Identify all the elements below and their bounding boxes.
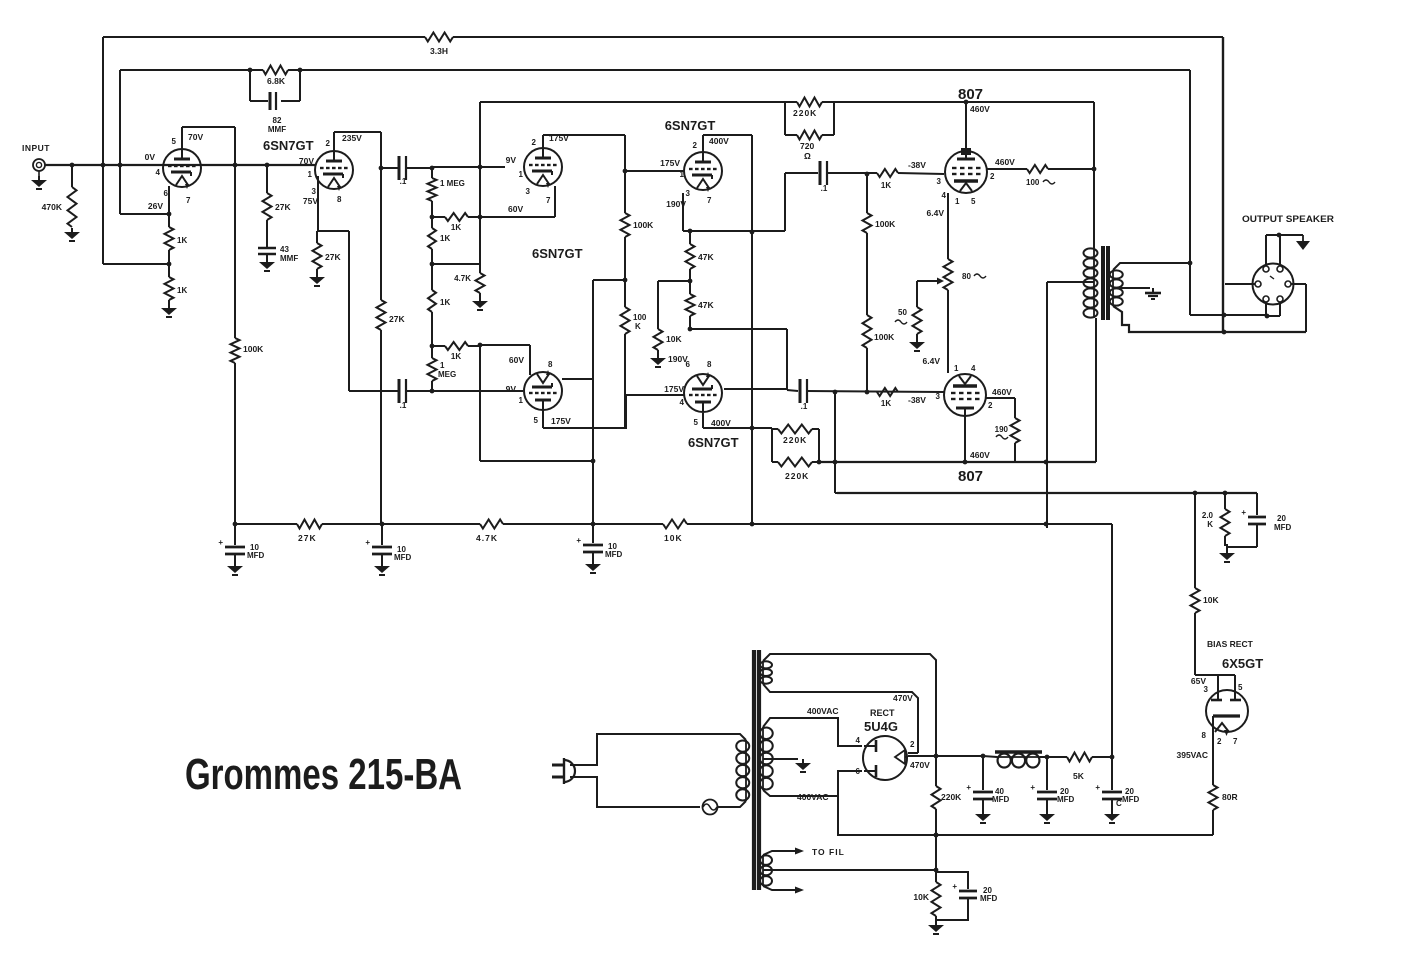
svg-text:400VAC: 400VAC xyxy=(807,706,839,716)
svg-text:6SN7GT: 6SN7GT xyxy=(688,435,739,450)
svg-text:MMF: MMF xyxy=(268,125,286,134)
svg-text:1: 1 xyxy=(954,364,959,373)
svg-text:5: 5 xyxy=(694,418,699,427)
svg-text:+: + xyxy=(966,783,971,792)
svg-text:1K: 1K xyxy=(440,298,450,307)
svg-text:TO FIL: TO FIL xyxy=(812,847,845,857)
resistor 27K divider at V2 grid xyxy=(266,165,268,193)
wire: 460V line from driver area to 807 plate xyxy=(480,101,797,103)
svg-text:3: 3 xyxy=(937,177,942,186)
svg-text:+: + xyxy=(1030,783,1035,792)
svg-text:Ω: Ω xyxy=(804,151,811,161)
capacitor .1 to upper 807 grid xyxy=(819,161,822,185)
resistor 100K V1 plate load xyxy=(231,338,240,363)
resistor 27K bus xyxy=(297,520,322,529)
wire: filament lead lower with arrow xyxy=(763,886,795,890)
svg-text:10K: 10K xyxy=(666,334,682,344)
svg-text:47K: 47K xyxy=(698,300,714,310)
svg-text:220K: 220K xyxy=(783,435,807,445)
ground below 470K xyxy=(71,228,73,232)
svg-text:807: 807 xyxy=(958,86,983,103)
wire: V5 plate riser to x=752 column xyxy=(702,135,704,153)
triode V6 6SN7GT (inverted) xyxy=(684,374,722,412)
svg-text:100: 100 xyxy=(1026,178,1040,187)
svg-text:1K: 1K xyxy=(177,236,187,245)
resistor 1K upper 807 grid stopper xyxy=(877,169,898,177)
capacitor 10 MFD decoupling 2 xyxy=(381,524,383,545)
resistor 10K bias xyxy=(1191,588,1200,613)
wire: lower 807 plate down to 460V rail xyxy=(964,416,966,462)
svg-text:2: 2 xyxy=(988,401,993,410)
AC plug xyxy=(564,760,575,782)
svg-text:4: 4 xyxy=(680,398,685,407)
svg-text:5: 5 xyxy=(971,197,976,206)
resistor 100K upper grid leak xyxy=(866,174,868,213)
resistor 4.7K bus xyxy=(480,520,503,529)
svg-text:9V: 9V xyxy=(506,384,517,394)
wire: V6 cathode down to 400V rail xyxy=(702,413,704,428)
potentiometer 80 ohm hum balance xyxy=(944,259,953,290)
resistor 4.7K to ground xyxy=(476,273,485,293)
wire: main input wire to V1 grid xyxy=(45,164,316,166)
triode V2 second 6SN7GT section xyxy=(315,151,353,189)
svg-text:470V: 470V xyxy=(893,693,913,703)
wire: socket right pin return xyxy=(1291,283,1306,285)
svg-text:MFD: MFD xyxy=(247,551,265,560)
svg-text:OUTPUT SPEAKER: OUTPUT SPEAKER xyxy=(1242,214,1335,224)
svg-text:220K: 220K xyxy=(785,471,809,481)
svg-text:8: 8 xyxy=(548,360,553,369)
resistor 10K filament CT xyxy=(932,882,941,916)
rectifier 6X5GT xyxy=(1206,690,1248,732)
svg-text:+: + xyxy=(576,536,581,545)
capacitor 20 MFD bias filter xyxy=(1256,493,1258,515)
transformer T1 core xyxy=(752,650,756,890)
svg-text:20: 20 xyxy=(1277,514,1286,523)
wire: 460V B+ line xyxy=(837,492,1257,494)
triode V1 first 6SN7GT section xyxy=(163,149,201,187)
wire: socket bottom pins xyxy=(1265,302,1267,316)
svg-text:10K: 10K xyxy=(1203,595,1219,605)
filter B+ line xyxy=(983,756,997,757)
resistor 1 MEG grid leak xyxy=(428,178,437,201)
resistor 50 ohm to ground xyxy=(913,307,922,334)
svg-text:6: 6 xyxy=(856,767,861,776)
wire: plug to fuse to primary bottom xyxy=(570,777,700,807)
wire: V3 grid line xyxy=(432,166,505,168)
svg-text:1K: 1K xyxy=(451,352,461,361)
svg-text:4: 4 xyxy=(156,168,161,177)
resistor 1K horizontal to V4 plate node xyxy=(432,345,445,347)
svg-text:7: 7 xyxy=(546,196,551,205)
resistor 1K horizontal to 60V node xyxy=(430,215,435,220)
svg-text:235V: 235V xyxy=(342,133,362,143)
transformer T1 rectifier filament winding xyxy=(762,661,764,684)
svg-text:9V: 9V xyxy=(506,155,517,165)
svg-text:3: 3 xyxy=(686,189,691,198)
svg-text:460V: 460V xyxy=(992,387,1012,397)
svg-text:1: 1 xyxy=(519,396,524,405)
capacitor .1 coupling to V3 grid xyxy=(381,167,398,169)
wire: V1 plate to 100K load, direct-coupled to V2 grid xyxy=(181,127,183,149)
svg-text:MFD: MFD xyxy=(1122,795,1140,804)
resistor 190 ohm xyxy=(1011,418,1020,443)
svg-text:80R: 80R xyxy=(1222,792,1238,802)
wire: V5 grid pickoff xyxy=(623,169,628,174)
svg-text:10K: 10K xyxy=(664,533,683,543)
resistor 1K vertical lower xyxy=(428,290,436,312)
resistor 1K lower 807 grid stopper xyxy=(877,388,898,396)
svg-text:6SN7GT: 6SN7GT xyxy=(665,118,716,133)
svg-text:-38V: -38V xyxy=(908,160,926,170)
svg-text:6.4V: 6.4V xyxy=(923,356,941,366)
svg-text:27K: 27K xyxy=(275,202,291,212)
svg-text:807: 807 xyxy=(958,468,983,485)
svg-text:190: 190 xyxy=(995,425,1009,434)
capacitor 10 MFD decoupling 1 xyxy=(234,524,236,545)
resistor 3.3H in top feedback line xyxy=(425,33,453,42)
svg-text:MFD: MFD xyxy=(1274,523,1292,532)
svg-text:8: 8 xyxy=(337,195,342,204)
capacitor 10 MFD decoupling 3 xyxy=(592,524,594,543)
resistor 27K V2 plate load xyxy=(377,300,386,330)
svg-text:1K: 1K xyxy=(177,286,187,295)
svg-text:220K: 220K xyxy=(941,792,962,802)
filter choke xyxy=(997,756,1040,758)
resistor 100K lower grid leak xyxy=(863,315,872,348)
svg-text:27K: 27K xyxy=(389,314,405,324)
svg-text:10K: 10K xyxy=(913,892,929,902)
svg-text:.1: .1 xyxy=(821,184,828,193)
transformer T2 core xyxy=(1101,246,1105,320)
capacitor .1 coupling to V4 grid xyxy=(349,390,398,392)
svg-text:1K: 1K xyxy=(881,399,891,408)
resistor 220K bleeder at rectifier xyxy=(935,756,937,786)
svg-text:MMF: MMF xyxy=(280,254,298,263)
svg-text:2: 2 xyxy=(990,172,995,181)
svg-text:3: 3 xyxy=(1204,685,1209,694)
svg-text:2: 2 xyxy=(1217,737,1222,746)
svg-text:6SN7GT: 6SN7GT xyxy=(263,138,314,153)
wiper arrow of hum pot xyxy=(937,278,944,285)
wire: vertical drop of second feedback line to speaker xyxy=(1189,70,1191,315)
svg-text:+: + xyxy=(952,882,957,891)
svg-text:3.3H: 3.3H xyxy=(430,46,448,56)
wire: lower grid bias column down to B+ line xyxy=(834,392,836,493)
svg-text:175V: 175V xyxy=(551,416,571,426)
wire: V6 left lead to 100K column xyxy=(626,394,684,396)
ground at input jack xyxy=(38,171,40,176)
svg-text:2: 2 xyxy=(532,138,537,147)
capacitor 82 MMF across feedback resistor xyxy=(249,70,251,101)
resistor 1K V1 cathode xyxy=(165,227,174,250)
resistor 470K input load xyxy=(71,165,73,187)
svg-text:5: 5 xyxy=(1238,683,1243,692)
svg-text:100K: 100K xyxy=(243,344,264,354)
svg-text:7: 7 xyxy=(707,196,712,205)
wire: 460V line corner at driver, drops to grid/cathode column xyxy=(479,102,481,264)
wire: 380V decoupling bus xyxy=(235,523,297,525)
svg-text:1: 1 xyxy=(519,170,524,179)
svg-text:K: K xyxy=(635,322,641,331)
svg-text:0V: 0V xyxy=(145,152,156,162)
svg-text:MFD: MFD xyxy=(605,550,623,559)
wire: HV top 400VAC to 5U4G plate 4 xyxy=(763,718,862,746)
svg-text:1K: 1K xyxy=(440,234,450,243)
svg-text:2: 2 xyxy=(326,139,331,148)
wire: V5 cathode to 47K chain xyxy=(682,193,684,231)
capacitor 20 MFD filter output xyxy=(1111,757,1113,790)
resistor 220K lower pair upper xyxy=(771,428,773,462)
svg-text:60V: 60V xyxy=(509,355,524,365)
svg-text:400V: 400V xyxy=(709,136,729,146)
svg-text:MEG: MEG xyxy=(438,370,456,379)
svg-text:8: 8 xyxy=(1202,731,1207,740)
svg-text:460V: 460V xyxy=(970,104,990,114)
wire: OPT secondary center tap to ground xyxy=(1113,287,1150,289)
svg-text:.1: .1 xyxy=(400,177,407,186)
svg-text:460V: 460V xyxy=(995,157,1015,167)
svg-text:MFD: MFD xyxy=(992,795,1010,804)
wire: V4 right-side lead xyxy=(562,378,593,380)
wire: plug to primary top xyxy=(570,734,746,765)
wire: bus drop to filter output xyxy=(1111,524,1113,757)
svg-text:2: 2 xyxy=(693,141,698,150)
wire: socket top pins xyxy=(1265,235,1267,266)
resistor 10K bus xyxy=(663,520,687,529)
svg-text:5U4G: 5U4G xyxy=(864,719,898,734)
svg-text:470K: 470K xyxy=(42,202,63,212)
svg-text:1: 1 xyxy=(955,197,960,206)
svg-text:190V: 190V xyxy=(666,199,686,209)
wire: upper 807 cathode to hum pot xyxy=(947,193,949,259)
ground below 10K xyxy=(935,921,937,925)
resistor 27K V2 cathode xyxy=(313,243,322,269)
svg-text:395VAC: 395VAC xyxy=(1177,750,1209,760)
svg-text:75V: 75V xyxy=(303,196,318,206)
wire: socket left pin to feedback vertical xyxy=(1225,283,1255,285)
transformer T1 filament winding xyxy=(762,855,764,886)
svg-text:1 MEG: 1 MEG xyxy=(440,179,465,188)
svg-text:720: 720 xyxy=(800,141,814,151)
wire: divider tap across to V6 grid and lower coupling xyxy=(690,328,787,330)
svg-text:4.7K: 4.7K xyxy=(476,533,498,543)
svg-text:50: 50 xyxy=(898,308,907,317)
wire: filament lead with arrow TO FIL xyxy=(763,851,795,855)
svg-text:470V: 470V xyxy=(910,760,930,770)
chassis ground arrow at socket xyxy=(1302,235,1304,241)
wire: to 6X5 plates xyxy=(1195,674,1218,676)
svg-text:60V: 60V xyxy=(508,204,523,214)
capacitor 20 MFD across 10K xyxy=(936,872,968,889)
svg-text:460V: 460V xyxy=(970,450,990,460)
wire: bias return line xyxy=(838,796,1213,835)
wire: B+ riser to OPT primary top xyxy=(1093,102,1095,248)
capacitor .1 to lower 807 grid xyxy=(787,390,798,391)
svg-text:27K: 27K xyxy=(325,252,341,262)
svg-text:6.8K: 6.8K xyxy=(267,76,286,86)
resistor 5K filter xyxy=(1067,753,1092,762)
capacitor 43 MMF xyxy=(258,247,276,250)
wire: upper 807 screen to 100 ohm xyxy=(987,168,1027,170)
svg-text:3: 3 xyxy=(526,187,531,196)
wire: V3 plate riser xyxy=(542,135,544,149)
resistor 47K lower xyxy=(686,294,695,316)
ground below V1 cathode xyxy=(168,300,170,304)
svg-text:+: + xyxy=(365,538,370,547)
svg-text:-38V: -38V xyxy=(908,395,926,405)
svg-text:1: 1 xyxy=(308,170,313,179)
wire: V4 plate lead up to 60V node xyxy=(529,345,531,375)
wire: OPT secondary top to feedback/socket xyxy=(1113,263,1190,270)
wire: 460V rail to output transformer xyxy=(819,461,1096,463)
svg-text:175V: 175V xyxy=(660,158,680,168)
svg-text:3: 3 xyxy=(312,187,317,196)
svg-text:4.7K: 4.7K xyxy=(454,274,471,283)
transformer T2 output: primary winding xyxy=(1093,248,1095,318)
svg-text:6X5GT: 6X5GT xyxy=(1222,656,1263,671)
wire: OPT primary center tap to B+ xyxy=(1047,281,1094,283)
svg-text:6: 6 xyxy=(686,360,691,369)
svg-text:Grommes 215-BA: Grommes 215-BA xyxy=(185,750,462,799)
svg-text:5: 5 xyxy=(172,137,177,146)
wire: tap to 10K tail xyxy=(658,280,690,282)
ground below 10K tail xyxy=(657,354,659,358)
svg-text:82: 82 xyxy=(273,116,282,125)
wire: tap from 100K junction to decoupling column xyxy=(593,279,625,281)
svg-text:70V: 70V xyxy=(188,132,203,142)
svg-text:+: + xyxy=(218,538,223,547)
svg-text:.1: .1 xyxy=(400,401,407,410)
svg-text:400VAC: 400VAC xyxy=(797,792,829,802)
beam tetrode 807 lower (inverted) xyxy=(944,374,986,416)
wire: V2 cathode down and over to phase splitter coupling xyxy=(317,176,319,231)
svg-text:100K: 100K xyxy=(875,219,896,229)
wire: V2 plate riser to 27K and coupling cap xyxy=(333,132,335,152)
wire: OPT secondary bottom to socket xyxy=(1113,306,1306,332)
svg-text:MFD: MFD xyxy=(1057,795,1075,804)
svg-text:26V: 26V xyxy=(148,201,163,211)
capacitor 40 MFD filter input xyxy=(982,756,984,790)
svg-text:K: K xyxy=(1207,520,1213,529)
svg-text:5K: 5K xyxy=(1073,771,1085,781)
svg-text:27K: 27K xyxy=(298,533,317,543)
wire: V1 cathode network xyxy=(168,186,170,227)
svg-text:7: 7 xyxy=(1233,737,1238,746)
wire: HV center tap to ground xyxy=(763,758,798,760)
svg-text:6.4V: 6.4V xyxy=(927,208,945,218)
wire: 6X5 cathode down through 80R xyxy=(1212,716,1214,785)
resistor 47K upper xyxy=(689,231,691,244)
svg-text:43: 43 xyxy=(280,245,289,254)
resistor 720 ohm paralleled xyxy=(784,102,786,135)
resistor 220K lower pair lower xyxy=(772,461,778,463)
svg-text:2.0: 2.0 xyxy=(1202,511,1214,520)
svg-text:7: 7 xyxy=(186,196,191,205)
ground at secondary center tap xyxy=(1152,288,1154,293)
svg-text:.1: .1 xyxy=(801,402,808,411)
svg-text:INPUT: INPUT xyxy=(22,143,50,153)
svg-text:4: 4 xyxy=(942,191,947,200)
wire: HV bottom 400VAC to 5U4G plate 6 xyxy=(763,790,838,796)
resistor 2.0K bleeder xyxy=(1224,493,1226,509)
wire: top feedback line to speaker socket xyxy=(103,36,425,38)
svg-text:RECT: RECT xyxy=(870,708,895,718)
svg-text:6SN7GT: 6SN7GT xyxy=(532,246,583,261)
svg-text:3: 3 xyxy=(936,392,941,401)
svg-text:8: 8 xyxy=(707,360,712,369)
wire: lower 807 screen to 190 ohm xyxy=(986,397,1015,399)
fuse xyxy=(703,800,718,815)
ground below 2.0K xyxy=(1226,549,1228,553)
resistor 1K lower V1 cathode xyxy=(165,277,174,300)
wire: second feedback line xyxy=(120,69,263,71)
wire: 60V cathode line of V3 xyxy=(480,216,555,218)
svg-text:70V: 70V xyxy=(299,156,314,166)
svg-text:6: 6 xyxy=(164,189,169,198)
svg-text:MFD: MFD xyxy=(394,553,412,562)
svg-text:4: 4 xyxy=(856,736,861,745)
capacitor 20 MFD filter xyxy=(1046,757,1048,790)
wire: tail junction over to 4.7K xyxy=(432,263,480,265)
wire: 5V winding bottom lead to 5U4G filament xyxy=(763,684,918,753)
wire: 5V winding top lead to 470V output xyxy=(763,654,936,756)
resistor 1K vertical xyxy=(428,228,436,249)
svg-text:+: + xyxy=(1095,783,1100,792)
triode V4 6SN7GT (inverted) xyxy=(524,372,562,410)
resistor 100K common plate xyxy=(621,213,630,237)
resistor 100K lower half xyxy=(621,307,630,334)
svg-text:80: 80 xyxy=(962,272,971,281)
svg-text:220K: 220K xyxy=(793,108,817,118)
wire: filament center tap xyxy=(763,869,936,871)
wire: rectifier output xyxy=(908,755,983,757)
transformer T2 secondary winding xyxy=(1112,270,1114,306)
triode V3 6SN7GT xyxy=(524,148,562,186)
svg-text:+: + xyxy=(1241,508,1246,517)
wire: 60V node down to decoupling column xyxy=(479,346,481,461)
svg-text:400V: 400V xyxy=(711,418,731,428)
transformer T1 HV secondary xyxy=(762,727,764,790)
speaker socket xyxy=(1253,264,1294,305)
svg-text:47K: 47K xyxy=(698,252,714,262)
svg-text:4: 4 xyxy=(971,364,976,373)
resistor 6.8K in feedback line xyxy=(263,66,288,75)
wire: V4 cathode down to 175V rail xyxy=(542,410,544,428)
resistor 1 MEG to V4 grid xyxy=(428,358,437,381)
transformer T1 power: primary winding xyxy=(745,740,747,801)
svg-text:175V: 175V xyxy=(664,384,684,394)
ground below 43 MMF xyxy=(266,254,268,258)
wire: V4 grid line xyxy=(432,390,523,392)
svg-text:MFD: MFD xyxy=(980,894,998,903)
svg-text:100: 100 xyxy=(633,313,647,322)
svg-text:100K: 100K xyxy=(874,332,895,342)
triode V5 6SN7GT xyxy=(684,152,722,190)
svg-text:1K: 1K xyxy=(451,223,461,232)
wire: vertical right side of top feedback line xyxy=(1222,37,1224,332)
wire: feedback tap from top line into cathode chain xyxy=(102,37,104,264)
svg-text:100K: 100K xyxy=(633,220,654,230)
svg-text:BIAS RECT: BIAS RECT xyxy=(1207,639,1254,649)
wire: lower feedback return to socket xyxy=(1190,314,1267,316)
svg-text:5: 5 xyxy=(534,416,539,425)
input jack xyxy=(33,159,45,171)
resistor 10K tail xyxy=(654,329,663,350)
svg-text:1K: 1K xyxy=(881,181,891,190)
resistor 80R xyxy=(1209,785,1218,810)
svg-text:1: 1 xyxy=(680,170,685,179)
